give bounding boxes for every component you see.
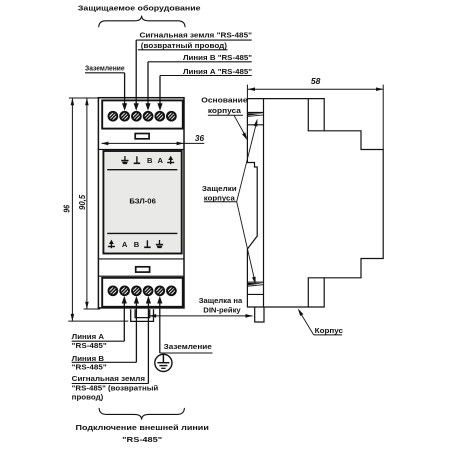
wire: line B bottom [135,302,137,362]
dimension 96 [63,98,75,321]
svg-text:А: А [157,156,163,165]
label: line B bottom [72,354,137,371]
panel bottom marking row: arrow, A, B, signal-gnd, earth [108,240,163,249]
top housing clip lines [247,112,263,124]
svg-text:96: 96 [63,205,72,213]
label: DIN rail latch [149,296,253,318]
top curly brace [99,16,185,28]
earth symbol in circle [155,354,172,371]
svg-text:36: 36 [195,134,205,143]
label panel [103,151,181,254]
label: housing base [201,96,247,141]
bottom vent slot [136,267,150,272]
svg-text:Линия А "RS-485": Линия А "RS-485" [183,67,252,76]
dimension 58 [247,77,383,150]
case seam above bottom terminal [98,275,184,277]
side view inner vertical (front plate) [263,99,265,307]
svg-text:В: В [147,156,153,165]
svg-text:58: 58 [311,77,321,86]
front view outer case [98,98,184,308]
case seam above label panel [98,148,184,150]
top terminal block [102,100,183,128]
svg-text:Защелки: Защелки [202,184,237,193]
panel top rule [107,169,177,171]
label: housing [298,308,343,335]
svg-text:DIN-рейку: DIN-рейку [203,305,241,314]
label: grounding bottom [160,342,213,353]
svg-text:Сигнальная земля: Сигнальная земля [72,374,145,383]
svg-text:"RS-485": "RS-485" [122,435,162,444]
bottom terminal block [102,278,183,307]
title: external RS-485 line connection [76,423,210,444]
title: protected equipment [78,3,201,12]
extension line at 90.5 bottom [84,308,101,310]
svg-text:Заземление: Заземление [164,342,212,351]
svg-text:провод): провод) [72,392,104,401]
jumper loop outer [131,309,154,321]
side view back tab top [308,99,325,131]
svg-text:Подключение внешней линии: Подключение внешней линии [76,423,210,432]
svg-text:Корпус: Корпус [315,326,343,335]
wire: signal ground bottom [147,302,149,384]
svg-text:Основание: Основание [201,96,247,105]
jumper loop inner [135,309,150,317]
svg-text:Защищаемое оборудование: Защищаемое оборудование [78,3,201,12]
wire: line B to terminal 4 [145,62,150,111]
label: line A RS-485 top [160,67,252,76]
svg-text:Линия В "RS-485": Линия В "RS-485" [183,53,252,62]
svg-text:Линия А: Линия А [72,332,105,341]
wire: earth bottom [159,302,161,353]
svg-text:В: В [134,240,140,249]
side view outline [247,99,383,307]
top terminal screws 1-6 [107,110,177,122]
dimension 90,5 [78,98,89,309]
label: signal ground bottom [72,374,159,401]
svg-text:90,5: 90,5 [78,194,87,210]
device name БЗЛ-06 [129,197,156,206]
panel bottom rule [107,232,177,234]
svg-text:корпуса: корпуса [208,106,242,115]
svg-text:(возвратный провод): (возвратный провод) [141,41,228,50]
panel top marking row: earth, signal-gnd, B, A, arrow [121,156,174,165]
wire: line A bottom [123,302,125,341]
bottom curly brace [99,408,184,420]
svg-text:"RS-485": "RS-485" [72,341,107,350]
svg-text:корпуса: корпуса [204,193,236,202]
label: line A bottom [72,332,125,350]
label: signal ground RS-485 [136,31,252,51]
case seam below label panel [98,258,184,260]
svg-text:БЗЛ-06: БЗЛ-06 [129,197,156,206]
top vent slot [135,134,149,139]
wire: signal ground to terminal 3 [134,40,139,111]
svg-text:А: А [122,240,128,249]
svg-text:Сигнальная земля "RS-485": Сигнальная земля "RS-485" [140,31,253,40]
bottom wire arrows into terminals [122,296,163,304]
side view back tab bottom [308,278,325,307]
wire: grounding to terminal 2 [122,73,127,111]
svg-text:"RS-485" (возвратный: "RS-485" (возвратный [72,383,159,392]
extension line at 96 bottom [68,320,128,322]
label: grounding top [85,64,125,73]
extension line top [69,97,100,99]
bottom terminal screws 1-6 [107,285,177,297]
svg-text:Заземление: Заземление [85,64,125,73]
svg-text:Защелка на: Защелка на [199,296,243,305]
DIN latch tab [255,307,264,322]
dimension 36 [101,134,204,145]
label: line B RS-485 top [148,53,252,62]
svg-text:"RS-485": "RS-485" [72,362,107,371]
wire: line A to terminal 5 [157,76,162,111]
bottom housing clip lines [247,282,263,294]
label: housing clips [202,119,258,285]
